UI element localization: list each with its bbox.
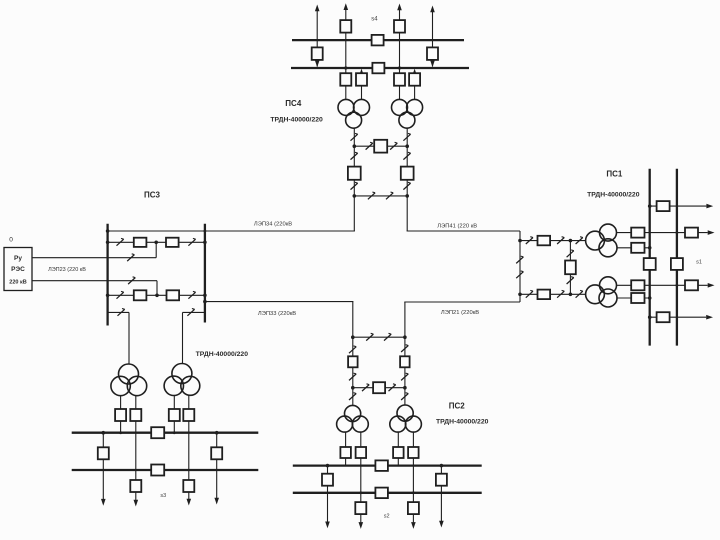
svg-text:s4: s4 bbox=[371, 17, 378, 23]
breaker ПС3 LV lower bus coupler bbox=[151, 465, 164, 476]
svg-text:Ру: Ру bbox=[14, 255, 22, 262]
busbar ПС4 lower 220kV bbox=[291, 67, 469, 69]
disconnector ПС4 bridge tie left bbox=[366, 142, 373, 149]
arrow ПС1 feeder row 317 bbox=[706, 315, 713, 320]
junction ПС2 repair jumper right bbox=[403, 335, 407, 339]
wire ПС3 feeder far-left riser bbox=[102, 433, 104, 500]
disconnector ПС1 bridge lower bbox=[567, 277, 574, 284]
busbar ПС2 LV lower bbox=[293, 492, 482, 494]
junction ПС2 feeder mid-right at LV lower bus bbox=[412, 491, 415, 494]
arrowhead feeder s4-1 at lower bus bbox=[315, 60, 320, 67]
junction ПС1 row2 at jumper bbox=[518, 293, 522, 297]
breaker ПС1 bus2 sectionalizer bbox=[671, 258, 683, 270]
disconnector ПС4 left leg below tie bbox=[351, 152, 358, 159]
junction ПС2 feeder mid-left at LV lower bus bbox=[359, 491, 362, 494]
junction ЛЭП34 crosses ПС3 right bus bbox=[204, 230, 207, 233]
breaker ПС4 left line bbox=[348, 167, 361, 180]
breaker ПС3 row1 right bbox=[166, 238, 179, 247]
disconnector ПС2 bridge tie right bbox=[389, 384, 396, 391]
breaker ПС2 LV upper bus coupler bbox=[375, 460, 388, 471]
junction ПС1 row 285 at bus2 bbox=[676, 284, 679, 287]
svg-text:s1: s1 bbox=[696, 260, 702, 266]
wire ПС1 bridge vertical bbox=[569, 241, 571, 295]
junction ПС3 T-left LV1 at bus bbox=[119, 431, 122, 434]
wire ПС3 T-left LV lead 1 bbox=[120, 396, 122, 433]
wire ПС1 feeder row bottom bbox=[650, 316, 707, 318]
wire ПС4 bridge tie bbox=[354, 145, 407, 147]
wire ПС1 T1 winding row lower bbox=[617, 247, 650, 249]
breaker ПС1 row1 bbox=[538, 236, 551, 246]
wire ПС2 T2 LV lead 1 bbox=[397, 432, 399, 466]
wire ЛЭП23 lower drop to row2 bbox=[156, 281, 158, 296]
breaker ПС1 T2 lower bbox=[631, 293, 644, 303]
wire ПС3 row2 bbox=[108, 294, 205, 296]
breaker ПС3 T-right LV 1 bbox=[169, 409, 180, 421]
busbar ПС4 upper 220kV bbox=[292, 39, 464, 41]
transformer ПС2 T2 circle bottom-left bbox=[390, 416, 406, 432]
arrow feeder s4-2 up bbox=[430, 6, 435, 13]
disconnector ПС4 repair jumper right bbox=[386, 192, 393, 199]
svg-text:ПС3: ПС3 bbox=[144, 191, 161, 200]
disconnector ПС3 row2 left bbox=[117, 291, 124, 298]
junction ПС3 row2 left bus bbox=[106, 294, 110, 298]
wire line ЛЭП23 upper bbox=[32, 257, 156, 259]
svg-text:ЛЭП33 (220кВ: ЛЭП33 (220кВ bbox=[258, 311, 296, 317]
junction ПС1 row1 at jumper bbox=[518, 239, 522, 243]
arrowhead T2 lead B at lower bus bbox=[412, 69, 417, 76]
wire ПС2 feeder far-left riser bbox=[327, 466, 329, 522]
svg-text:ТРДН-40000/220: ТРДН-40000/220 bbox=[587, 192, 640, 199]
disconnector ПС3 row1 right bbox=[188, 238, 195, 245]
transformer ПС4 T1 winding circle bottom bbox=[346, 112, 362, 128]
junction ПС1 T1 lower at bus1 bbox=[648, 246, 652, 250]
junction ПС4 bridge tie right bbox=[405, 144, 409, 148]
transformer ПС4 T1 winding circle top-right bbox=[354, 99, 370, 115]
transformer ПС4 T1 winding circle top-left bbox=[338, 99, 354, 115]
svg-text:ПС4: ПС4 bbox=[285, 99, 302, 108]
wire ПС1 T1 winding row upper / feeder bbox=[617, 232, 708, 234]
wire ПС4 right leg upper bbox=[406, 128, 408, 167]
wire ПС4 T1 HV lead B bbox=[361, 74, 363, 100]
arrowhead T1 lead B at lower bus bbox=[359, 69, 364, 76]
disconnector ПС2 left leg lowest bbox=[349, 393, 356, 400]
breaker ПС2 T1 LV 2 bbox=[356, 447, 367, 458]
arrow ПС2 feeder mid-right bbox=[411, 522, 416, 529]
arrow ПС2 feeder far-right bbox=[439, 521, 444, 528]
junction ПС3 far-left riser at LV upper bus bbox=[102, 431, 106, 435]
disconnector ПС1 row1 mid bbox=[557, 237, 564, 244]
junction ПС1 feeder 206 at bus1 bbox=[648, 204, 652, 208]
disconnector ПС3 T-left feed bbox=[118, 309, 125, 316]
arrow ПС3 feeder far-right bbox=[214, 498, 219, 505]
breaker ПС1 T1 lower bbox=[631, 243, 644, 253]
transformer ПС4 T2 winding circle top-left bbox=[392, 99, 408, 115]
transformer ПС1 T1 circle secondary upper bbox=[600, 224, 617, 241]
transformer ПС3 T-left circle bottom-left bbox=[111, 376, 130, 395]
wire line ЛЭП21 220kV bbox=[404, 301, 520, 303]
wire ЛЭП23 upper drop to row1 bbox=[155, 242, 157, 257]
disconnector ПС4 right leg lower bbox=[403, 182, 410, 189]
wire ПС3 T-right LV lead 2 / feeder bbox=[188, 395, 190, 499]
svg-text:ТРДН-40000/220: ТРДН-40000/220 bbox=[436, 419, 489, 426]
disconnector ПС4 repair jumper left bbox=[368, 192, 375, 199]
breaker ПС3 row2 right bbox=[167, 290, 180, 300]
transformer ПС3 T-left circle top bbox=[119, 364, 139, 384]
wire ПС2 bridge tie bbox=[353, 387, 405, 389]
breaker ПС4 bus coupler upper bus bbox=[372, 35, 384, 46]
arrow ПС1 feeder row 285 bbox=[708, 283, 715, 288]
svg-text:s3: s3 bbox=[160, 493, 166, 499]
disconnector ПС2 left leg below breaker bbox=[349, 373, 356, 380]
wire ПС2 feeder far-right riser bbox=[440, 466, 442, 521]
wire ПС3 transformer feed right vertical bbox=[182, 312, 184, 363]
arrow ПС1 feeder row 232 bbox=[708, 230, 715, 235]
breaker ПС2 feeder mid-right bbox=[408, 502, 419, 514]
wire line ЛЭП41 220kV bbox=[407, 230, 520, 232]
arrow ПС3 feeder mid-right bbox=[187, 499, 192, 506]
breaker ПС3 feeder far-right bbox=[211, 447, 222, 459]
transformer ПС2 T2 circle bottom-right bbox=[405, 416, 421, 432]
busbar ПС1 second 220kV bbox=[676, 169, 678, 346]
arrow ПС3 feeder far-left bbox=[101, 499, 106, 506]
junction ПС1 row1 bridge tap bbox=[569, 239, 573, 243]
disconnector ПС1 row2 transformer side bbox=[576, 290, 583, 297]
disconnector ПС2 right leg lowest bbox=[401, 393, 408, 400]
junction ЛЭП33 at ПС3 right bus bbox=[203, 300, 207, 304]
svg-text:ЛЭП21 (220кВ: ЛЭП21 (220кВ bbox=[441, 310, 479, 316]
wire ПС2 repair jumper bbox=[353, 336, 405, 338]
svg-text:ЛЭП34 (220кВ: ЛЭП34 (220кВ bbox=[254, 222, 292, 228]
disconnector ПС4 right leg upper bbox=[403, 133, 410, 140]
disconnector ПС3 row2 right bbox=[188, 291, 195, 298]
wire ПС1 T2 winding row upper / feeder bbox=[617, 284, 708, 286]
disconnector ПС4 left leg lower bbox=[351, 182, 358, 189]
junction ПС2 repair jumper left bbox=[351, 335, 355, 339]
svg-text:ЛЭП41 (220 кВ: ЛЭП41 (220 кВ bbox=[437, 224, 477, 230]
wire ПС3 row1 bbox=[108, 241, 205, 243]
disconnector ПС3 row1 left bbox=[117, 238, 124, 245]
breaker ПС4 T2 lead A bbox=[394, 73, 405, 86]
breaker ПС4 bridge bbox=[374, 140, 387, 153]
arrow feeder s4-1 up bbox=[315, 5, 320, 12]
wire ПС1 repair jumper vertical bbox=[519, 231, 521, 302]
wire ПС3 transformer feed left vertical bbox=[128, 312, 130, 364]
wire ПС4 left leg lower bbox=[353, 180, 355, 231]
transformer ПС1 T2 circle primary bbox=[586, 285, 605, 304]
wire ПС2 right leg bbox=[404, 302, 406, 405]
transformer ПС2 T1 circle top bbox=[345, 405, 361, 421]
breaker ПС1 T1 upper bbox=[631, 228, 644, 238]
breaker ПС2 feeder far-right bbox=[436, 474, 447, 486]
junction ПС4 T2 lead A at lower bus bbox=[398, 66, 401, 69]
junction ПС3 row1 middle bbox=[154, 241, 158, 245]
junction ПС3 row2 middle bbox=[155, 294, 159, 298]
wire ПС1 feeder row top bbox=[650, 205, 707, 207]
breaker ПС4 T1 lead B bbox=[356, 73, 367, 86]
disconnector ПС2 right leg below breaker bbox=[401, 373, 408, 380]
busbar ПС3 LV lower bbox=[72, 469, 259, 471]
breaker ПС1 row2 bbox=[538, 290, 551, 300]
junction ПС2 bridge tie right bbox=[403, 386, 407, 390]
transformer ПС3 T-right circle bottom-right bbox=[181, 376, 200, 395]
breaker ПС2 bridge bbox=[373, 382, 385, 393]
disconnector ПС2 repair jumper left bbox=[366, 333, 373, 340]
wire line ЛЭП23 lower bbox=[32, 280, 157, 282]
disconnector ПС1 row2 line side bbox=[526, 290, 533, 297]
breaker ПС2 LV lower bus coupler bbox=[375, 488, 388, 499]
breaker ПС2 T2 LV 1 bbox=[393, 447, 404, 458]
wire ПС1 entry row1 bbox=[520, 240, 586, 242]
junction ПС1 row2 bridge tap bbox=[569, 293, 573, 297]
wire ПС4 T1 HV lead A / feeder riser bbox=[345, 10, 347, 100]
breaker ПС1 feeder row 285 bbox=[685, 280, 698, 290]
transformer ПС4 T2 winding circle top-right bbox=[407, 99, 423, 115]
breaker ПС2 T2 LV 2 bbox=[408, 447, 419, 458]
transformer ПС3 T-right circle bottom-left bbox=[164, 376, 183, 395]
transformer ПС3 T-left circle bottom-right bbox=[127, 376, 146, 395]
breaker ПС3 T-left LV 1 bbox=[115, 409, 126, 421]
junction ПС4 repair jumper left bbox=[353, 194, 357, 198]
wire ПС3 T-left LV lead 2 / feeder bbox=[135, 396, 137, 500]
breaker ПС4 right line bbox=[401, 167, 414, 180]
arrow ПС2 feeder far-left bbox=[325, 522, 330, 529]
wire ПС4 repair jumper bbox=[354, 195, 407, 197]
wire line ЛЭП33 220kV bbox=[205, 301, 354, 303]
disconnector ПС4 bridge tie right bbox=[390, 142, 397, 149]
transformer ПС2 T2 circle top bbox=[397, 405, 413, 421]
wire ПС3 feeder far-right riser bbox=[216, 433, 218, 499]
arrow ПС4 feeder above T2 lead A bbox=[397, 4, 402, 11]
breaker ПС3 LV upper bus coupler bbox=[151, 427, 164, 438]
disconnector ПС3 T-right feed bbox=[187, 309, 194, 316]
breaker ПС2 left line bbox=[348, 356, 358, 367]
breaker ПС3 row1 left bbox=[134, 238, 147, 247]
wire ПС2 T2 LV lead 2 / feeder bbox=[412, 432, 414, 522]
svg-text:220 кВ: 220 кВ bbox=[9, 280, 26, 286]
arrow ПС1 feeder row 206 bbox=[706, 204, 713, 209]
svg-text:РЭС: РЭС bbox=[11, 266, 25, 273]
breaker ПС4 feeder s4-1 bbox=[312, 47, 323, 60]
disconnector ПС4 right leg below tie bbox=[403, 152, 410, 159]
disconnector ПС1 bridge upper bbox=[567, 250, 574, 257]
breaker ПС4 feeder s4-2 bbox=[427, 47, 438, 60]
junction ПС3 row2 right bus bbox=[203, 294, 207, 298]
transformer ПС1 T1 circle secondary lower bbox=[599, 239, 617, 257]
junction ЛЭП34 at ПС3 left bus bbox=[106, 229, 110, 233]
svg-text:ПС2: ПС2 bbox=[449, 402, 466, 411]
breaker ПС3 T-right LV 2 bbox=[183, 409, 194, 421]
breaker ПС1 bus1 sectionalizer bbox=[644, 258, 656, 270]
transformer ПС1 T2 circle secondary lower bbox=[599, 289, 617, 307]
junction ПС1 feeder 317 at bus1 bbox=[648, 315, 652, 319]
breaker ПС2 feeder mid-left bbox=[355, 502, 366, 514]
breaker ПС3 feeder mid-left bbox=[130, 480, 141, 492]
breaker ПС4 T1 lead A bbox=[340, 73, 351, 86]
wire ПС3 T-right LV lead 1 bbox=[173, 395, 175, 432]
wire ПС4 T2 HV lead A / feeder riser bbox=[399, 10, 401, 100]
transformer ПС1 T2 circle secondary upper bbox=[600, 277, 617, 294]
svg-text:0: 0 bbox=[9, 237, 13, 244]
wire ПС2 left leg bbox=[352, 302, 354, 406]
svg-text:ТРДН-40000/220: ТРДН-40000/220 bbox=[270, 117, 323, 124]
junction ПС2 far-left riser at LV upper bus bbox=[326, 464, 330, 468]
disconnector ЛЭП23 upper bbox=[127, 254, 134, 261]
disconnector ПС4 left leg upper bbox=[351, 133, 358, 140]
junction ПС2 bridge tie left bbox=[351, 386, 355, 390]
junction ПС3 T-right LV1 at bus bbox=[173, 431, 176, 434]
junction ПС4 bridge tie left bbox=[353, 144, 357, 148]
junction ПС4 T1 lead A at lower bus bbox=[344, 66, 347, 69]
svg-text:ПС1: ПС1 bbox=[606, 169, 623, 178]
disconnector ПС1 row1 line side bbox=[526, 237, 533, 244]
transformer ПС2 T1 circle bottom-right bbox=[352, 416, 368, 432]
breaker ПС1 feeder row 206 bbox=[657, 201, 670, 211]
wire ПС4 right leg lower bbox=[406, 180, 408, 231]
arrowhead feeder s4-2 at lower bus bbox=[430, 60, 435, 67]
busbar ПС1 first 220kV bbox=[649, 169, 651, 346]
disconnector ПС2 bridge tie left bbox=[362, 384, 369, 391]
breaker ПС4 feeder above upper bus left bbox=[340, 20, 351, 32]
disconnector ПС2 repair jumper right bbox=[384, 333, 391, 340]
svg-text:s2: s2 bbox=[384, 514, 390, 520]
junction ПС3 far-right riser at LV upper bus bbox=[215, 431, 219, 435]
breaker ПС2 feeder far-left bbox=[322, 474, 333, 486]
breaker ПС1 feeder row 317 bbox=[657, 312, 670, 322]
breaker ПС3 feeder mid-right bbox=[183, 480, 194, 492]
disconnector ПС2 right leg upper bbox=[401, 345, 408, 352]
disconnector ПС1 repair jumper upper bbox=[516, 256, 523, 263]
arrow ПС4 feeder above T1 lead A bbox=[344, 3, 349, 10]
disconnector ПС2 left leg upper bbox=[349, 346, 356, 353]
svg-text:ЛЭП23 (220 кВ: ЛЭП23 (220 кВ bbox=[48, 267, 86, 273]
junction ПС3 row1 right bus bbox=[203, 241, 207, 245]
transformer ПС3 T-right circle top bbox=[172, 364, 192, 384]
wire ПС1 T2 winding row lower bbox=[617, 297, 650, 299]
transformer ПС4 T2 winding circle bottom bbox=[399, 112, 415, 128]
transformer ПС1 T1 circle primary bbox=[586, 231, 605, 250]
disconnector ПС1 repair jumper lower bbox=[516, 271, 523, 278]
breaker ПС1 feeder row 232 bbox=[685, 228, 698, 238]
arrow ПС2 feeder mid-left bbox=[359, 522, 364, 529]
wire ПС3 transformer feed right horizontal bbox=[183, 311, 205, 313]
breaker ПС4 feeder above upper bus right bbox=[394, 20, 405, 32]
breaker ПС3 row2 left bbox=[134, 290, 147, 300]
busbar ПС3 left 220kV bbox=[106, 224, 108, 326]
transformer ПС2 T1 circle bottom-left bbox=[337, 416, 353, 432]
disconnector ПС1 row1 transformer side bbox=[576, 237, 583, 244]
svg-text:ТРДН-40000/220: ТРДН-40000/220 bbox=[196, 351, 249, 358]
arrow ПС3 feeder mid-left bbox=[134, 500, 139, 507]
disconnector ПС1 row2 mid bbox=[557, 290, 564, 297]
junction ПС2 far-right riser at LV upper bus bbox=[440, 464, 444, 468]
wire ПС2 T1 LV lead 1 bbox=[345, 432, 347, 466]
block РУ РЭС 220кВ bbox=[4, 248, 32, 291]
wire ПС4 feeder s4-1 riser bbox=[316, 11, 318, 67]
breaker ПС2 right line bbox=[400, 356, 410, 367]
busbar ПС3 right 220kV bbox=[204, 224, 206, 323]
disconnector ЛЭП23 lower bbox=[128, 277, 135, 284]
wire line ЛЭП34 220kV bbox=[108, 230, 355, 232]
breaker ПС3 T-left LV 2 bbox=[130, 409, 141, 421]
busbar ПС3 LV upper bbox=[72, 432, 259, 434]
breaker ПС3 feeder far-left bbox=[98, 447, 109, 459]
wire ПС4 feeder s4-2 riser bbox=[432, 12, 434, 67]
busbar ПС2 LV upper bbox=[293, 464, 482, 466]
breaker ПС4 T2 lead B bbox=[409, 73, 420, 86]
junction ПС1 row 232 at bus2 bbox=[676, 231, 679, 234]
breaker ПС2 T1 LV 1 bbox=[340, 447, 351, 458]
wire ПС1 entry row2 bbox=[520, 293, 586, 295]
junction ПС4 repair jumper right bbox=[405, 194, 409, 198]
breaker ПС1 bridge bbox=[565, 261, 576, 275]
wire ПС2 T1 LV lead 2 / feeder bbox=[360, 432, 362, 522]
junction ПС3 row1 left bus bbox=[106, 241, 110, 245]
breaker ПС1 T2 upper bbox=[631, 280, 644, 290]
wire ПС4 left leg upper bbox=[353, 128, 355, 167]
junction ПС1 T2 lower at bus1 bbox=[648, 296, 652, 300]
wire ПС4 T2 HV lead B bbox=[414, 74, 416, 100]
wire ПС3 transformer feed left horizontal bbox=[108, 311, 129, 313]
breaker ПС4 bus coupler lower bus bbox=[372, 63, 384, 74]
